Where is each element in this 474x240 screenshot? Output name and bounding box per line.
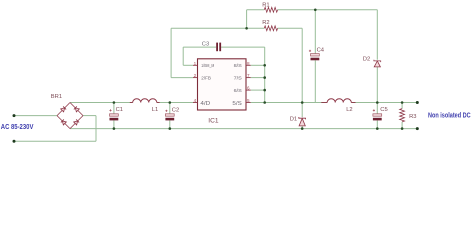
svg-text:BR1: BR1 [51,94,62,100]
svg-text:4: 4 [194,98,197,103]
svg-text:R1: R1 [262,3,269,9]
svg-text:8: 8 [247,61,250,66]
svg-text:R3: R3 [409,114,416,120]
svg-text:7/S: 7/S [234,76,243,82]
svg-text:C1: C1 [116,107,123,113]
svg-text:AC 85-230V: AC 85-230V [1,122,34,131]
svg-text:5: 5 [247,98,250,103]
svg-text:D1: D1 [290,117,297,123]
svg-text:L2: L2 [346,107,352,113]
svg-text:C5: C5 [380,107,387,113]
svg-text:6/S: 6/S [234,88,243,94]
svg-text:6: 6 [247,86,250,91]
svg-text:2/FB: 2/FB [201,76,211,82]
svg-text:Non isolated DC: Non isolated DC [428,110,471,119]
svg-text:C2: C2 [172,107,179,113]
svg-text:C3: C3 [202,41,209,47]
svg-text:1: 1 [194,61,197,66]
svg-text:5/S: 5/S [232,101,242,107]
svg-text:D2: D2 [363,57,370,63]
svg-text:1/BM_M: 1/BM_M [201,63,214,69]
svg-text:R2: R2 [262,20,269,26]
svg-text:2: 2 [194,73,197,78]
svg-text:4/D: 4/D [200,101,210,107]
svg-text:L1: L1 [152,107,158,113]
svg-text:C4: C4 [317,47,325,53]
svg-text:7: 7 [247,73,250,78]
svg-text:8/S: 8/S [234,63,243,69]
svg-text:IC1: IC1 [208,118,219,125]
